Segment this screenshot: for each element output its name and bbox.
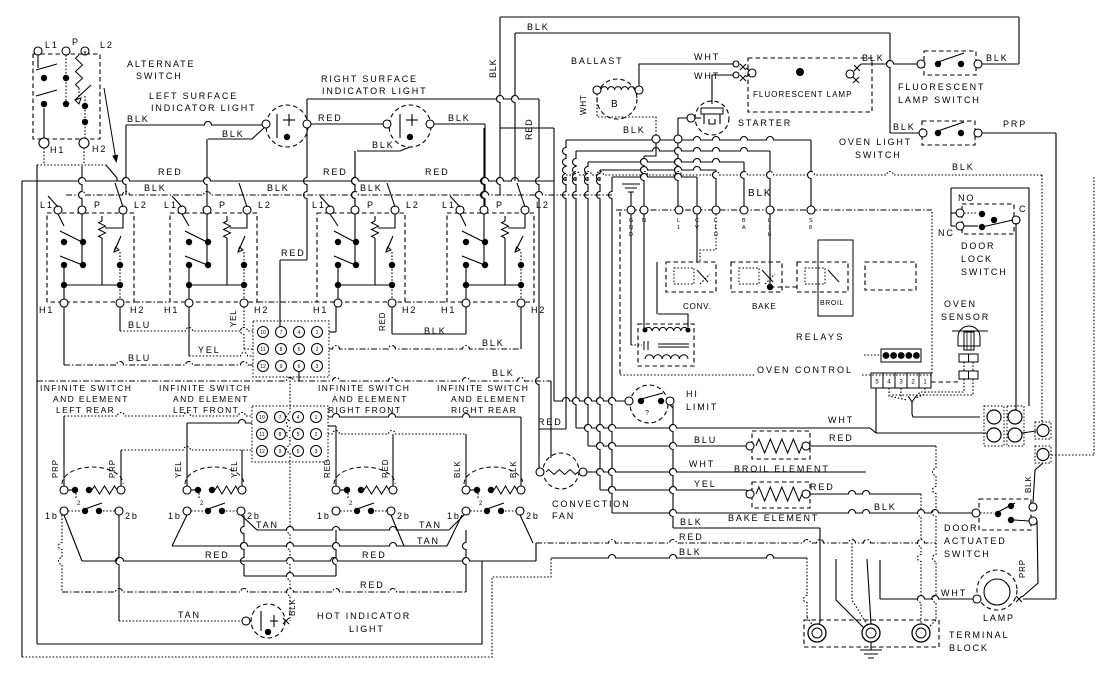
wire BLK right of right indicator — [434, 123, 485, 125]
svg-text:YEL: YEL — [174, 460, 183, 478]
svg-text:INFINITE SWITCH: INFINITE SWITCH — [437, 383, 529, 393]
hi limit thermostat — [625, 385, 674, 423]
svg-text:H2: H2 — [402, 305, 417, 315]
svg-text:BLK: BLK — [509, 460, 518, 478]
wire from CN2 to left rear element (left) — [63, 416, 65, 486]
wire L1b terminal to broil relay — [770, 286, 797, 288]
wire bus vertical x=588 (BLU) — [585, 162, 589, 446]
svg-text:BLK: BLK — [874, 502, 897, 512]
wire BLK to left indicator — [126, 122, 262, 126]
wire BLK vertical x=500 — [497, 17, 501, 195]
wire BLU from H2 left rear to CN1 — [119, 307, 121, 331]
wire RED between indicator lights — [311, 123, 383, 125]
svg-text:2b: 2b — [397, 511, 411, 521]
svg-text:1: 1 — [315, 415, 318, 421]
svg-text:L1: L1 — [45, 40, 59, 50]
svg-text:STARTER: STARTER — [738, 118, 792, 128]
wire connector strip to sensor plug — [931, 379, 957, 382]
wire BLK (y=558) to terminal block — [551, 555, 807, 559]
connector block CN2 (lower) — [252, 406, 328, 462]
svg-text:H2: H2 — [254, 305, 269, 315]
svg-text:WHT: WHT — [694, 71, 720, 81]
wire WHT to lamp — [880, 596, 973, 599]
wire junction to L1 terminal — [675, 143, 679, 206]
svg-text:BLK: BLK — [488, 59, 498, 78]
svg-text:L1: L1 — [442, 200, 456, 210]
wire bus vertical x=600 (YEL) — [597, 170, 601, 490]
svg-text:L2: L2 — [536, 200, 550, 210]
wire RED H2 right front — [391, 307, 393, 334]
svg-text:CONVECTION: CONVECTION — [552, 499, 631, 509]
svg-text:2b: 2b — [125, 511, 139, 521]
wire 2b right rear diagonal to RED run — [520, 515, 533, 543]
svg-text:INDICATOR LIGHT: INDICATOR LIGHT — [151, 103, 256, 113]
svg-text:BLU: BLU — [694, 435, 717, 445]
wire from hi limit down (x=673) — [670, 405, 674, 528]
wire RED step up to dash-dot run — [535, 543, 537, 561]
svg-text:L1: L1 — [40, 200, 54, 210]
svg-text:SWITCH: SWITCH — [961, 267, 1008, 277]
svg-text:10: 10 — [260, 330, 266, 336]
wire RED from broil element — [810, 445, 936, 447]
svg-text:INFINITE SWITCH: INFINITE SWITCH — [40, 383, 132, 393]
svg-text:11: 11 — [260, 347, 265, 353]
wire from H1 of alternate switch — [43, 148, 45, 165]
svg-text:ACTUATED: ACTUATED — [944, 536, 1007, 546]
wire connector strip pin 5 to relay contact — [875, 388, 877, 433]
wire oven control feed sweep 3 — [588, 159, 744, 162]
starter S1 — [687, 101, 729, 135]
svg-text:RED: RED — [205, 550, 230, 560]
svg-text:RED: RED — [538, 417, 563, 427]
element+switch (right front burner) — [332, 467, 397, 515]
convection fan M1 — [536, 453, 587, 489]
svg-text:RED: RED — [524, 119, 534, 140]
svg-text:TAN: TAN — [256, 520, 279, 530]
svg-text:b: b — [768, 232, 771, 238]
junction circles below ballast — [652, 135, 660, 143]
wire oven control feed sweep 4 — [600, 167, 716, 171]
svg-text:RED: RED — [360, 580, 385, 590]
svg-text:H2: H2 — [130, 305, 145, 315]
svg-text:1b: 1b — [447, 511, 461, 521]
wire PRP vertical right side — [1055, 133, 1057, 599]
wire right front element right feed — [392, 434, 394, 486]
svg-text:BLK: BLK — [492, 368, 515, 378]
svg-text:L2: L2 — [258, 200, 272, 210]
wire WHT into relay contact block — [876, 432, 988, 434]
wire from door switch up to contact box B — [1033, 463, 1043, 503]
wire RED to convection fan — [539, 428, 566, 430]
wire from CN2 to left front element (left) — [186, 423, 188, 486]
svg-text:TAN: TAN — [419, 520, 442, 530]
wire CN2 to right rear element (left) BLK — [328, 431, 466, 434]
terminal block — [804, 620, 939, 647]
wire BLK lamp switch to top line — [982, 63, 1019, 65]
door lock switch — [951, 188, 1020, 234]
wire RED bottom long run — [82, 558, 536, 562]
svg-text:3: 3 — [316, 364, 319, 370]
svg-text:P: P — [496, 200, 504, 210]
svg-text:AND ELEMENT: AND ELEMENT — [173, 394, 249, 404]
svg-text:6: 6 — [298, 364, 301, 370]
svg-text:INDICATOR LIGHT: INDICATOR LIGHT — [322, 86, 427, 96]
wire inner loop bottom run — [37, 561, 482, 644]
svg-text:HOT INDICATOR: HOT INDICATOR — [317, 611, 411, 621]
svg-text:CONV.: CONV. — [683, 302, 712, 311]
wire H2 right front to H1 right rear — [392, 333, 466, 335]
wire transformer secondary riser — [658, 314, 688, 327]
svg-text:8: 8 — [279, 432, 282, 438]
svg-text:BLK: BLK — [448, 113, 471, 123]
hot surface indicator light DS3 — [242, 604, 289, 638]
svg-text:FLUORESCENT: FLUORESCENT — [898, 82, 985, 92]
svg-text:YEL: YEL — [198, 345, 221, 355]
svg-text:BLU: BLU — [128, 320, 151, 330]
svg-text:RED: RED — [425, 167, 450, 177]
wire BLK top line 2 — [515, 32, 890, 34]
svg-text:PRP: PRP — [1018, 559, 1027, 578]
wire from door switch to lamp — [1022, 521, 1038, 597]
svg-text:11: 11 — [259, 432, 264, 438]
svg-text:BLK: BLK — [893, 122, 916, 132]
svg-text:BLK: BLK — [424, 326, 447, 336]
wire inner loop left (x=37) — [36, 165, 38, 644]
svg-text:7: 7 — [280, 330, 283, 336]
wire relay contact to contact box A — [1022, 431, 1036, 433]
svg-text:INFINITE SWITCH: INFINITE SWITCH — [159, 383, 251, 393]
wire P column unit4 — [481, 128, 484, 206]
fluorescent lamp tube — [733, 58, 872, 112]
wire bus vertical x=576 (WHT) — [573, 151, 576, 428]
svg-text:BLK: BLK — [623, 125, 646, 135]
wire PRP joins lamp right — [1023, 598, 1056, 600]
svg-text:L2: L2 — [134, 200, 148, 210]
wire BLK vertical x=890 down to oven light switch — [887, 33, 891, 133]
svg-text:6: 6 — [297, 449, 300, 455]
svg-text:RED: RED — [810, 482, 835, 492]
svg-text:BLK: BLK — [527, 22, 550, 32]
svg-text:RED: RED — [318, 113, 343, 123]
svg-text:NC: NC — [938, 228, 955, 238]
svg-text:LIGHT: LIGHT — [349, 624, 385, 634]
wire BLK into oven light switch — [890, 132, 919, 134]
element+switch (left front burner) — [183, 467, 246, 515]
svg-text:FLUORESCENT LAMP: FLUORESCENT LAMP — [753, 90, 852, 99]
wire YEL from H1 left front to CN1 — [188, 307, 190, 356]
svg-text:BALLAST: BALLAST — [571, 56, 623, 66]
svg-text:HI: HI — [686, 389, 699, 399]
wire into hi limit — [554, 398, 627, 401]
wire WHT from fan to right — [587, 469, 866, 473]
svg-text:FAN: FAN — [552, 511, 575, 521]
svg-text:1: 1 — [677, 225, 680, 231]
svg-text:RED: RED — [378, 312, 387, 331]
bake element — [746, 482, 810, 508]
fluorescent lamp switch — [917, 51, 982, 75]
svg-text:4: 4 — [297, 415, 300, 421]
wire BLU from H1 left rear to CN1 (long) — [63, 307, 65, 365]
svg-text:B: B — [742, 218, 746, 224]
svg-text:YEL: YEL — [230, 460, 239, 478]
wire from H2 left front to CN1 — [241, 307, 245, 349]
wire BLK top line 1 — [500, 16, 1019, 18]
wire WHT (y=428) — [576, 425, 870, 428]
relay contact block pair 2 — [1007, 406, 1024, 446]
wire BLK from CN1-2 to H2 right rear — [329, 346, 521, 350]
wire from CN1 to H1 right front — [329, 331, 336, 333]
wire H2 alternate switch stub — [83, 148, 85, 165]
svg-text:DOOR: DOOR — [961, 241, 995, 251]
svg-text:BLK: BLK — [372, 140, 395, 150]
wire RED dash-dot long run to terminal block — [536, 540, 936, 543]
svg-text:BLK: BLK — [267, 183, 290, 193]
svg-text:RED: RED — [158, 167, 183, 177]
wire RED drop right of indicators (long, to fan) — [536, 99, 540, 429]
svg-text:B: B — [611, 99, 620, 110]
wire RED from 1b left rear diagonal — [64, 515, 82, 561]
svg-text:YEL: YEL — [694, 479, 717, 489]
wire junction to N terminal — [644, 143, 656, 156]
svg-text:P: P — [219, 200, 227, 210]
svg-text:BLK: BLK — [482, 338, 505, 348]
svg-text:RED: RED — [362, 550, 387, 560]
wire P column unit3 (from right indicator) — [352, 151, 356, 206]
wire starter left down — [678, 118, 687, 135]
contact box B — [1035, 446, 1051, 463]
element+switch (left rear burner) — [60, 467, 125, 515]
wire BLK long into fan area — [550, 381, 552, 458]
svg-text:12: 12 — [260, 364, 266, 370]
svg-text:AND ELEMENT: AND ELEMENT — [451, 394, 527, 404]
svg-text:INFINITE SWITCH: INFINITE SWITCH — [318, 383, 410, 393]
svg-text:3: 3 — [315, 449, 318, 455]
transformer T1 (oven control) — [638, 324, 694, 366]
svg-text:BLK: BLK — [360, 183, 383, 193]
svg-text:H1: H1 — [441, 305, 456, 315]
svg-text:2: 2 — [316, 347, 319, 353]
svg-text:H1: H1 — [50, 145, 65, 155]
svg-text:?: ? — [645, 410, 649, 417]
svg-text:H1: H1 — [39, 305, 54, 315]
wire oven sensor to oven control connector — [916, 379, 964, 397]
wire from C terminal down to relay contact block — [1015, 223, 1017, 412]
svg-text:H1: H1 — [313, 305, 328, 315]
svg-text:L1: L1 — [312, 200, 326, 210]
svg-text:1b: 1b — [45, 511, 59, 521]
svg-text:OVEN LIGHT: OVEN LIGHT — [839, 137, 912, 147]
svg-text:BLK: BLK — [680, 517, 703, 527]
svg-text:LEFT FRONT: LEFT FRONT — [173, 405, 239, 415]
svg-text:L2: L2 — [100, 40, 114, 50]
svg-text:RED: RED — [679, 532, 704, 542]
svg-text:WHT: WHT — [689, 459, 715, 469]
svg-text:BLK: BLK — [748, 188, 772, 199]
contact box A — [1035, 422, 1051, 439]
wire oven control feed sweep 1 — [566, 137, 811, 141]
svg-text:10: 10 — [259, 415, 265, 421]
svg-text:2b: 2b — [526, 511, 540, 521]
svg-text:BAKE: BAKE — [752, 302, 777, 311]
wire TAN to hot indicator light — [119, 620, 245, 622]
wires from connector strip merging — [889, 388, 907, 400]
bake relay K2 — [731, 262, 782, 292]
right surface indicator light DS2 — [383, 105, 434, 147]
svg-text:RED: RED — [381, 459, 390, 478]
svg-text:P: P — [72, 37, 80, 47]
svg-text:BLOCK: BLOCK — [949, 643, 989, 653]
ground symbol at oven control GND pin — [622, 184, 640, 206]
wire dash row between switch units — [134, 301, 170, 303]
svg-text:9: 9 — [279, 449, 282, 455]
svg-text:H2: H2 — [531, 305, 546, 315]
svg-text:1b: 1b — [168, 511, 182, 521]
wire TAN run 2 (y=530) — [241, 515, 257, 530]
svg-text:TERMINAL: TERMINAL — [949, 630, 1009, 640]
wire BLK to door actuated switch — [612, 510, 973, 513]
wire YEL to bake element — [600, 487, 746, 491]
wire top of right indicator circuit — [307, 96, 539, 100]
wire from 2b left front down — [241, 515, 245, 576]
svg-text:8: 8 — [280, 347, 283, 353]
wire BLK from hot light up through connector area — [287, 377, 291, 617]
oven control outer box — [620, 212, 932, 375]
wire CV terminal into conv relay — [696, 214, 698, 262]
svg-text:C: C — [1019, 204, 1027, 214]
svg-text:LEFT REAR: LEFT REAR — [56, 405, 115, 415]
surface unit switch (left front) — [170, 183, 257, 307]
wire RED dash-dot run (y=592) — [59, 515, 62, 592]
svg-text:L: L — [677, 218, 680, 224]
svg-text:TAN: TAN — [417, 536, 440, 546]
broil relay K3 — [797, 240, 853, 316]
spare relay dashed box — [865, 262, 916, 290]
svg-text:SWITCH: SWITCH — [944, 549, 991, 559]
wire RED outer loop left/bottom (x=22) — [21, 181, 23, 657]
svg-text:RELAYS: RELAYS — [796, 332, 845, 342]
svg-text:RED: RED — [323, 459, 332, 478]
svg-text:BLK: BLK — [222, 129, 245, 139]
svg-text:SWITCH: SWITCH — [136, 71, 183, 81]
broil element — [746, 431, 810, 459]
svg-text:9: 9 — [280, 364, 283, 370]
wire starter to lamp WHT 2 — [712, 75, 735, 104]
svg-text:P: P — [94, 200, 102, 210]
wire TAN from 2b left rear down — [116, 515, 120, 621]
svg-text:7: 7 — [279, 415, 282, 421]
wire transformer to GND/N — [643, 214, 645, 328]
ballast B1 — [593, 79, 643, 119]
svg-text:A: A — [742, 225, 746, 231]
wire BLK bus (top switch row) — [66, 192, 612, 196]
wire RED drop x=936 to terminal block lug3 — [933, 446, 936, 620]
svg-text:BLK: BLK — [986, 53, 1009, 63]
svg-text:RIGHT FRONT: RIGHT FRONT — [328, 405, 401, 415]
wire BLU to broil element — [588, 443, 746, 447]
svg-text:RED: RED — [829, 433, 854, 443]
wire bus vertical x=566 — [563, 140, 567, 429]
svg-text:1: 1 — [768, 225, 771, 231]
svg-text:DOOR: DOOR — [944, 523, 978, 533]
wire outer loop bottom run — [22, 558, 551, 657]
svg-text:NO: NO — [958, 193, 975, 203]
wire TAN run 1 (y=546) — [172, 515, 187, 546]
svg-text:8: 8 — [809, 225, 812, 231]
surface unit switch (left rear) — [47, 183, 134, 307]
svg-text:PRP: PRP — [1003, 119, 1027, 129]
surface unit switch (right front) — [317, 183, 405, 307]
svg-text:L1: L1 — [164, 200, 178, 210]
svg-text:BLK: BLK — [952, 162, 975, 172]
wire BLK to door lock area — [566, 172, 1042, 175]
wire 2b right front diagonal — [391, 515, 404, 546]
wire PRP from oven light switch — [982, 132, 1056, 134]
svg-text:BLK: BLK — [1024, 475, 1033, 493]
wire ballast left down — [597, 94, 656, 135]
svg-text:LEFT SURFACE: LEFT SURFACE — [149, 91, 238, 101]
oven control sensor plug (black dots) — [864, 349, 921, 362]
oven light switch — [919, 121, 982, 145]
wire lamp right to fluorescent lamp switch — [861, 61, 921, 64]
wires converging on terminal block lug2 — [836, 559, 864, 628]
svg-text:OVEN: OVEN — [944, 299, 977, 309]
svg-text:LAMP: LAMP — [983, 613, 1015, 623]
wire far right vertical — [1093, 177, 1095, 455]
svg-text:RIGHT REAR: RIGHT REAR — [451, 405, 517, 415]
connector block CN1 (upper) — [253, 321, 329, 377]
svg-text:TAN: TAN — [178, 610, 201, 620]
alternate switch SW1 — [33, 47, 100, 148]
svg-text:P: P — [367, 200, 375, 210]
svg-text:SWITCH: SWITCH — [855, 150, 902, 160]
wire RED from left indicator down to CN1 — [304, 128, 308, 260]
wire left front element right to CN2 — [241, 450, 243, 486]
wire BLK (y=528) to terminal block lug1 — [673, 527, 820, 529]
svg-text:PRP: PRP — [108, 459, 117, 478]
oven control terminal row — [616, 206, 932, 214]
svg-text:BLK: BLK — [288, 598, 297, 616]
svg-text:BLK: BLK — [127, 114, 150, 124]
arrow from alternate switch — [104, 88, 116, 157]
svg-text:RED: RED — [323, 167, 348, 177]
wire oven control feed sweep 2 — [576, 148, 770, 151]
svg-text:LOCK: LOCK — [961, 254, 993, 264]
svg-text:L2: L2 — [406, 200, 420, 210]
svg-text:RED: RED — [281, 248, 306, 258]
svg-text:5: 5 — [298, 347, 301, 353]
svg-text:BLK: BLK — [453, 460, 462, 478]
svg-text:BLK: BLK — [862, 53, 885, 63]
svg-text:PRP: PRP — [51, 459, 60, 478]
wire BLK from CN1-6 long to convection area — [298, 371, 300, 381]
svg-text:RIGHT SURFACE: RIGHT SURFACE — [321, 74, 418, 84]
junction Y to relay contacts — [908, 396, 980, 417]
svg-text:L: L — [768, 218, 771, 224]
svg-text:WHT: WHT — [828, 415, 854, 425]
oven sensor RT1 — [952, 326, 988, 379]
svg-text:WHT: WHT — [941, 588, 967, 598]
wire BLK bottom of right indicator to switch P (right front) — [357, 147, 410, 151]
wire CN2 to right front element (left) — [335, 426, 337, 486]
svg-text:5: 5 — [297, 432, 300, 438]
svg-text:S: S — [809, 218, 813, 224]
svg-text:12: 12 — [259, 449, 265, 455]
wire BLK vertical to contact box A — [1041, 175, 1043, 424]
wire RED from bake element to terminal block — [810, 491, 921, 494]
svg-text:BLU: BLU — [128, 353, 151, 363]
svg-text:OVEN CONTROL: OVEN CONTROL — [757, 365, 853, 375]
door lock switch enclosure — [951, 188, 1029, 406]
